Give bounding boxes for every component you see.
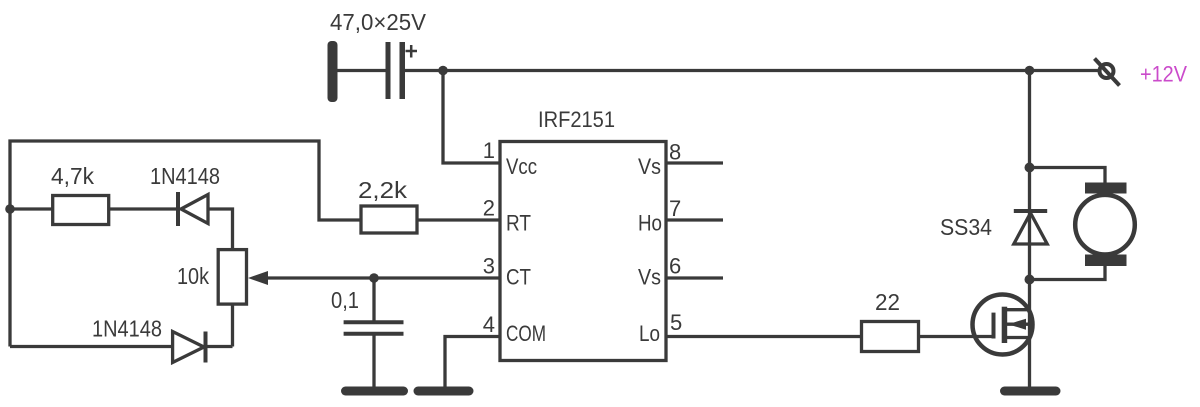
svg-text:1N4148: 1N4148 <box>92 316 162 342</box>
resistor R3 2,2k <box>361 206 417 233</box>
svg-text:47,0×25V: 47,0×25V <box>330 9 427 35</box>
svg-text:7: 7 <box>669 196 681 221</box>
wire pin 6 stub <box>666 276 723 279</box>
transistor Q1 body-source arrow <box>1007 319 1030 330</box>
pin 8 name Vs <box>638 154 661 179</box>
wire CT node to C2 <box>372 278 375 321</box>
wire C2 to ground <box>372 334 375 388</box>
label R4 value 22 <box>875 289 900 315</box>
wire to R1 <box>10 207 53 210</box>
wire R3 to RT pin 2 <box>417 218 500 221</box>
transistor Q1 drain link <box>1004 308 1030 311</box>
wire left loop bottom <box>10 345 173 348</box>
node junction right rail top <box>1025 66 1035 76</box>
ground GND2 <box>414 387 474 396</box>
label C1 value 47,0x25V <box>330 9 427 35</box>
pin 2 name RT <box>506 211 531 236</box>
svg-text:2: 2 <box>483 196 495 221</box>
transistor Q1 source link <box>1004 336 1030 339</box>
svg-text:SS34: SS34 <box>940 214 992 240</box>
svg-text:8: 8 <box>669 140 681 165</box>
svg-text:6: 6 <box>669 254 681 279</box>
pin 2 number <box>483 196 495 221</box>
wire left loop top <box>10 141 361 347</box>
wire COM pin 4 to ground <box>445 337 500 389</box>
transistor Q1 gate electrode <box>992 313 996 339</box>
pin 3 name CT <box>506 265 531 290</box>
capacitor C1 plus sign <box>406 45 418 58</box>
transistor Q1 body circle <box>973 295 1033 355</box>
capacitor C1 negative plate (thick bar) <box>328 41 338 102</box>
svg-text:+12V: +12V <box>1140 62 1187 87</box>
wire pin 5 Lo to R4 <box>666 335 862 338</box>
svg-text:5: 5 <box>670 310 682 335</box>
node junction motor bottom <box>1025 275 1035 285</box>
transistor Q1 channel bar <box>1002 307 1008 343</box>
svg-text:2,2k: 2,2k <box>358 177 408 203</box>
motor M1 bottom brush <box>1085 255 1127 267</box>
pin 1 number <box>483 138 495 163</box>
diode VD3 SS34 (pointing up) <box>1014 211 1047 244</box>
svg-text:Vcc: Vcc <box>506 154 537 179</box>
svg-text:COM: COM <box>506 321 546 346</box>
label R2 value 10k <box>177 263 209 289</box>
label VD3 SS34 <box>940 214 992 240</box>
motor M1 body <box>1075 195 1135 255</box>
pin 7 number <box>669 196 681 221</box>
node junction left rail <box>5 204 15 214</box>
svg-text:3: 3 <box>483 254 495 279</box>
wire R1 to VD1 <box>109 207 177 210</box>
wire top +12V rail <box>404 69 1099 72</box>
label +12V net <box>1140 62 1187 87</box>
motor M1 top brush <box>1085 183 1127 194</box>
node junction at Vcc branch <box>438 66 448 76</box>
wire motor top branch <box>1030 168 1106 185</box>
diode VD1 1N4148 (pointing left) <box>178 192 208 226</box>
svg-text:0,1: 0,1 <box>331 287 359 313</box>
svg-text:1N4148: 1N4148 <box>150 163 220 189</box>
svg-text:Lo: Lo <box>639 321 660 346</box>
op-amp U1 IRF2151 body <box>500 142 666 361</box>
label C2 value 0,1 <box>331 287 359 313</box>
pin 6 name Vs <box>638 265 661 290</box>
svg-text:CT: CT <box>506 265 531 290</box>
wire VD2 to potentiometer bottom <box>207 345 233 348</box>
wire wiper to CT pin 3 <box>262 276 500 279</box>
diode VD2 1N4148 (pointing right) <box>173 332 206 363</box>
wire pin 8 stub <box>666 161 723 164</box>
svg-text:4: 4 <box>483 312 495 337</box>
potentiometer R2 wiper arrow <box>248 271 268 285</box>
ground GND3 <box>1000 387 1061 396</box>
svg-text:IRF2151: IRF2151 <box>538 107 615 132</box>
wire potentiometer bottom <box>231 304 234 346</box>
wire C1 bar to plates <box>336 69 386 72</box>
svg-text:RT: RT <box>506 211 531 236</box>
resistor R4 22 <box>862 322 919 352</box>
pin 6 number <box>669 254 681 279</box>
svg-text:1: 1 <box>483 138 495 163</box>
capacitor C1 plates <box>386 42 406 99</box>
pin 3 number <box>483 254 495 279</box>
pin 7 name Ho <box>638 211 662 236</box>
label VD1 1N4148 <box>150 163 220 189</box>
pin 4 name COM <box>506 321 546 346</box>
svg-text:Vs: Vs <box>638 265 661 290</box>
svg-text:4,7k: 4,7k <box>51 163 94 189</box>
svg-text:22: 22 <box>875 289 900 315</box>
wire R4 to gate <box>919 335 996 338</box>
capacitor C2 0,1 <box>344 322 404 334</box>
pin 5 name Lo <box>639 321 660 346</box>
potentiometer R2 10k body <box>218 250 246 305</box>
wire pin 7 stub <box>666 218 723 221</box>
svg-text:Vs: Vs <box>638 154 661 179</box>
wire VD1 to potentiometer top <box>208 209 233 250</box>
ground GND1 <box>341 387 408 396</box>
wire right rail (drain/source vertical) <box>1028 71 1031 389</box>
wire rail to Vcc pin 1 <box>443 71 500 164</box>
label R1 value 4,7k <box>51 163 94 189</box>
pin 5 number <box>670 310 682 335</box>
label U1 IRF2151 <box>538 107 615 132</box>
node junction CT / C2 <box>369 273 379 283</box>
label VD2 1N4148 <box>92 316 162 342</box>
svg-text:10k: 10k <box>177 263 209 289</box>
svg-text:Ho: Ho <box>638 211 662 236</box>
terminal +12V (circle with slash) <box>1095 59 1120 86</box>
node junction motor top <box>1025 163 1035 173</box>
label R3 value 2,2k <box>358 177 408 203</box>
wire motor bottom branch <box>1030 264 1106 280</box>
pin 8 number <box>669 140 681 165</box>
pin 4 number <box>483 312 495 337</box>
resistor R1 4,7k <box>53 196 109 225</box>
pin 1 name Vcc <box>506 154 537 179</box>
